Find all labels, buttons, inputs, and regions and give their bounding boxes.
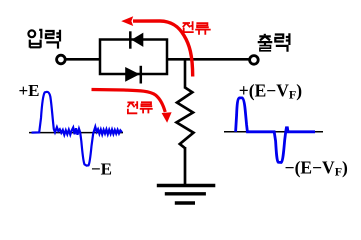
diode D1 (top, cathode left) bbox=[130, 31, 143, 48]
current arrow bottom (red, curving down to resistor) bbox=[92, 90, 172, 123]
wire resistor to ground bbox=[184, 147, 187, 185]
diode D2 (bottom, cathode right) bbox=[125, 66, 141, 84]
input terminal bbox=[57, 55, 66, 64]
input waveform trace (blue) bbox=[32, 92, 123, 166]
output waveform trace (blue) bbox=[236, 98, 315, 162]
label 전류 top (red) bbox=[183, 21, 211, 35]
svg-text:+E: +E bbox=[19, 81, 40, 100]
input waveform axis bbox=[29, 132, 123, 134]
ground bbox=[157, 186, 216, 204]
wire input terminal to diode box bbox=[66, 58, 100, 61]
wire diode box to output terminal bbox=[167, 58, 249, 61]
output waveform axis bbox=[224, 131, 323, 133]
wire junction down to resistor bbox=[184, 59, 187, 88]
label 출력 (output) bbox=[258, 33, 290, 52]
label 입력 (input) bbox=[28, 30, 60, 49]
diode box branch frame bbox=[100, 40, 167, 75]
current arrow top (red, leftward over diode box) bbox=[121, 16, 193, 76]
svg-text:−(E−VF): −(E−VF) bbox=[285, 157, 348, 178]
resistor R (zigzag) bbox=[177, 88, 194, 148]
label 전류 bottom (red) bbox=[127, 101, 152, 113]
svg-text:+(E−VF): +(E−VF) bbox=[239, 80, 302, 101]
svg-text:−E: −E bbox=[91, 159, 112, 178]
output terminal bbox=[250, 56, 259, 65]
